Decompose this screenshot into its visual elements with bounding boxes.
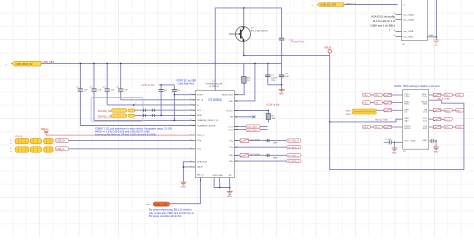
- svg-text:SBU-: SBU-: [456, 111, 461, 113]
- resistor R10: [384, 126, 392, 129]
- capacitor C6: [93, 63, 95, 120]
- svg-text:USB_VBUS_5V: USB_VBUS_5V: [16, 63, 33, 66]
- U2 left pin stubs: [396, 14, 402, 36]
- svg-text:TX1+: TX1+: [445, 95, 451, 97]
- svg-text:1uF: 1uF: [285, 76, 289, 78]
- U3 inside pin names: [404, 94, 416, 143]
- svg-text:bus_INTA: bus_INTA: [404, 30, 414, 33]
- ground (U2, salmon): [433, 40, 439, 43]
- wire CC1 row with red net label: [234, 126, 267, 128]
- net label SBU1 (yellow): [352, 109, 377, 111]
- resistor array row 2 (yellow parts): [15, 147, 53, 152]
- resistor R9: [384, 109, 392, 112]
- resistor R3 pull-up SDA: [173, 85, 175, 95]
- svg-text:R? 4.7K: R? 4.7K: [15, 136, 23, 138]
- resistor R2 pull-up SCL: [160, 85, 162, 116]
- resistor R7: [384, 94, 392, 97]
- ground (U1 bottom): [227, 192, 233, 195]
- wire SPA_ECE / LADR tie: [183, 162, 195, 167]
- ground (U3 left): [392, 148, 398, 151]
- resistor R8: [384, 101, 392, 104]
- svg-text:+3.3V or Vcc: +3.3V or Vcc: [266, 104, 281, 107]
- svg-text:TX2+: TX2+: [445, 127, 451, 129]
- U1 bottom pin labels: [213, 175, 233, 177]
- svg-text:TX1+: TX1+: [375, 95, 381, 97]
- network left row 1: [362, 93, 402, 97]
- wire row 1 to U1: [69, 139, 196, 141]
- svg-text:TX1-: TX1-: [375, 103, 380, 105]
- network left row 2: [362, 101, 402, 105]
- capacitor C14 (U3 right decoupling): [431, 139, 433, 143]
- capacitor C7: [106, 63, 108, 105]
- wire DB row: [234, 116, 255, 118]
- svg-text:RXD2-: RXD2-: [404, 128, 411, 130]
- net label row 2 (red): [55, 147, 68, 151]
- resistor R1 (Q1 emitter): [242, 77, 246, 84]
- wire SCL row to U1: [135, 109, 196, 111]
- net label box: [362, 93, 370, 97]
- svg-text:BJT-P (A) 2N3906: BJT-P (A) 2N3906: [251, 29, 269, 32]
- svg-text:Cited Note Pins: Cited Note Pins: [178, 82, 195, 85]
- svg-text:GP: GP: [228, 175, 232, 177]
- junction on rail: [160, 84, 162, 86]
- svg-text:GND: GND: [422, 140, 427, 142]
- wire R3 continues to CHARGE row: [173, 95, 175, 121]
- net label SBU2 (yellow): [352, 112, 377, 114]
- junctions on wire W: [80, 63, 82, 65]
- series element on SDA row: [144, 114, 155, 117]
- svg-text:1A 1.10 calls for 1 of: 1A 1.10 calls for 1 of: [372, 20, 395, 23]
- wire VDD to wire W: [234, 63, 255, 101]
- svg-text:2x: 2x: [10, 142, 12, 144]
- svg-text:1uF: 1uF: [97, 90, 101, 92]
- wire rail corner down to PORT pin: [174, 94, 195, 96]
- svg-text:GND: GND: [213, 175, 218, 177]
- connector net texts row 2: [10, 148, 12, 153]
- wire C8 drop to INT pin row: [121, 99, 196, 101]
- svg-text:TXD+: TXD+: [363, 95, 369, 97]
- svg-text:TXD-: TXD-: [422, 96, 427, 98]
- svg-text:USB_C_EN: USB_C_EN: [155, 203, 168, 206]
- svg-text:+3.3V or Vcc: +3.3V or Vcc: [141, 84, 156, 87]
- resistor R14: [433, 126, 441, 129]
- resistor R6: [240, 154, 249, 157]
- svg-text:NOTE: TXD0 naming is relative: NOTE: TXD0 naming is relative to the hos…: [394, 85, 439, 88]
- op IC U2 body (top right, clipped): [402, 0, 428, 41]
- junction Q1 top on top rail: [243, 7, 245, 9]
- svg-text:Probe Point: Probe Point: [291, 40, 304, 43]
- wire +3.3V rail: [159, 84, 174, 86]
- U1 bottom pin stubs: [200, 178, 229, 182]
- capacitor C9: [267, 63, 269, 84]
- svg-text:RV layout controller will do t: RV layout controller will do this.: [149, 215, 183, 218]
- svg-text:VCC: VCC: [404, 141, 409, 143]
- capacitor C10: [281, 63, 283, 84]
- junction wire V at C4 branch: [281, 55, 283, 57]
- U1 left pin labels: [197, 95, 218, 177]
- svg-text:TXD-: TXD-: [404, 96, 409, 98]
- svg-text:USB_D+: USB_D+: [56, 141, 66, 143]
- net label top (yellow flag): [317, 3, 344, 7]
- svg-text:CHARGE_INJECT_B: CHARGE_INJECT_B: [197, 119, 218, 122]
- svg-text:25V: 25V: [271, 80, 275, 82]
- TP row A: resistor + cap + label: [234, 140, 286, 142]
- junction VDD vertical on wire W: [214, 63, 216, 65]
- wire VCCIO row to pull area: [234, 110, 268, 112]
- svg-text:text: text: [146, 203, 150, 206]
- svg-text:1uF: 1uF: [124, 90, 128, 92]
- wire SDA row to U1: [135, 114, 196, 116]
- svg-text:VDD: VDD: [228, 101, 233, 103]
- wire top rail from U1 VDD up and over to C4 branch: [215, 8, 281, 91]
- junction wire V at Q1: [243, 55, 245, 57]
- svg-text:TXD2: TXD2: [456, 127, 462, 129]
- svg-text:GND: GND: [411, 141, 416, 143]
- network right row 3: [429, 109, 464, 113]
- svg-text:VBUS: VBUS: [324, 45, 332, 49]
- svg-text:SPA_ECE: SPA_ECE: [197, 161, 207, 164]
- svg-text:CC_2: CC_2: [445, 119, 451, 121]
- note text VGA slot profile: [371, 16, 396, 33]
- svg-text:external pullup listed as 1/4: external pullup listed as 1/4 watt 1/16S…: [95, 134, 157, 137]
- svg-text:0.1uF: 0.1uF: [386, 139, 392, 141]
- svg-text:USB_D-: USB_D-: [56, 149, 65, 151]
- svg-text:USB_I2C_3V3: USB_I2C_3V3: [321, 4, 337, 7]
- svg-text:CC2: CC2: [423, 112, 428, 114]
- svg-text:TXD2: TXD2: [363, 127, 369, 129]
- svg-text:bus_SDA0: bus_SDA0: [404, 18, 415, 21]
- op IC U3 network body: [403, 90, 429, 150]
- svg-text:CC: CC: [404, 112, 408, 114]
- svg-text:LADR: LADR: [197, 166, 203, 169]
- wire W (VBUS_SENSE horizontal rail): [11, 62, 282, 64]
- net label TP_TXD (row A): [287, 139, 301, 142]
- svg-text:DNP: DNP: [273, 157, 278, 159]
- net label EN_LO (orange highlighted): [153, 202, 169, 206]
- resistor R12: [433, 109, 441, 112]
- ground (U3 right): [433, 147, 439, 150]
- svg-text:k: k: [136, 103, 137, 105]
- svg-text:TXD+: TXD+: [456, 95, 462, 97]
- net label box: [374, 93, 382, 97]
- U2 right GND pin: [427, 36, 433, 38]
- svg-text:10K: 10K: [272, 118, 276, 120]
- wire row 2 to U1: [69, 148, 196, 150]
- wire C7 drop to pin B row: [107, 104, 195, 106]
- U3 bottom left VCC pin wire: [395, 141, 403, 143]
- svg-text:1uF: 1uF: [84, 90, 88, 92]
- wire C4 bottom to wire V and W: [281, 40, 283, 63]
- wire EN_LO down and left: [170, 178, 201, 204]
- network right row 2 (to VBUS route): [429, 99, 451, 101]
- svg-text:SBU1: SBU1: [346, 110, 352, 112]
- svg-text:GND: GND: [433, 151, 438, 153]
- wire bottom GND tie: [214, 182, 230, 188]
- svg-text:TP_TXD_3: TP_TXD_3: [288, 141, 300, 143]
- network left row 3 with yellow labels: [346, 109, 403, 116]
- svg-text:INT_B: INT_B: [197, 100, 204, 102]
- svg-text:SBU2: SBU2: [346, 114, 352, 116]
- network right row 1: [429, 93, 464, 97]
- svg-text:GND: GND: [218, 175, 223, 177]
- transistor Q1: [229, 8, 251, 56]
- svg-text:DB: DB: [230, 117, 234, 119]
- connector net texts row 1: [10, 140, 12, 145]
- U1 right pin labels: [221, 95, 233, 163]
- svg-text:1K 1/16W: 1K 1/16W: [250, 154, 261, 156]
- ground (ADDR pins): [180, 182, 186, 185]
- svg-text:TX2+: TX2+: [375, 127, 381, 129]
- svg-text:USB_VB.3: USB_VB.3: [43, 61, 56, 64]
- capacitor C12 (series): [267, 154, 269, 157]
- svg-text:EN_LO: EN_LO: [197, 174, 204, 176]
- wire top label to U2 in pin: [344, 4, 398, 6]
- resistor array row 1 (yellow parts): [15, 138, 53, 143]
- svg-text:GBL/4.2 USB: GBL/4.2 USB: [437, 99, 450, 101]
- svg-text:bus_SDA1: bus_SDA1: [404, 13, 415, 16]
- resistor R4 below VCCIO row: [267, 111, 269, 114]
- svg-text:CC2: CC2: [229, 129, 234, 131]
- svg-text:GND: GND: [392, 152, 397, 154]
- svg-text:GBL/4.2 USB: GBL/4.2 USB: [375, 120, 388, 122]
- svg-text:TXD-: TXD-: [363, 103, 368, 105]
- svg-text:USB-I and 1 of USB-1: USB-I and 1 of USB-1: [371, 25, 396, 28]
- TP row B wire + label: [234, 146, 286, 148]
- ground GND (caps): [279, 89, 285, 92]
- svg-text:SDA: SDA: [197, 114, 202, 117]
- wire stub to ground: [281, 85, 283, 89]
- network right row 4: [429, 117, 453, 121]
- svg-text:VBUS_DET: VBUS_DET: [221, 95, 233, 97]
- net label TP row C: [287, 154, 301, 157]
- resistor R11: [433, 94, 441, 97]
- svg-text:CC1: CC1: [229, 127, 234, 129]
- svg-text:TP_RXD_1: TP_RXD_1: [288, 161, 300, 163]
- wire C6 drop to CHARGE row: [94, 119, 196, 121]
- group outline around I2C labels: [91, 98, 143, 122]
- wire route to network row 4: [330, 119, 403, 122]
- svg-text:TP_TXD_1: TP_TXD_1: [288, 155, 300, 157]
- svg-text:STUSB4: STUSB4: [208, 98, 221, 102]
- series element on SCL row: [144, 109, 155, 112]
- svg-text:1uF: 1uF: [111, 90, 115, 92]
- U2 pin labels: [404, 4, 415, 38]
- svg-text:RXD-: RXD-: [404, 104, 410, 106]
- svg-text:VGA-E/1.0 slot profile: VGA-E/1.0 slot profile: [371, 16, 396, 19]
- wire CC2 row with red net label: [234, 128, 267, 130]
- svg-text:CC2_3V3: CC2_3V3: [247, 130, 257, 132]
- network right row 5: [429, 125, 464, 129]
- svg-text:bus_INTb: bus_INTb: [404, 36, 414, 38]
- svg-text:CURRENT_MODE: CURRENT_MODE: [197, 125, 216, 127]
- net label GBL_VBUS flag (yellow): [12, 61, 41, 66]
- resistor R13: [433, 118, 441, 121]
- junction VBUS route to RXD row: [329, 121, 331, 123]
- svg-text:SBU1: SBU1: [445, 111, 451, 113]
- U1 left pin stubs: [192, 95, 196, 167]
- svg-text:1K 1/16W: 1K 1/16W: [250, 139, 261, 141]
- svg-text:TXD_C: TXD_C: [197, 135, 205, 137]
- svg-text:(1.08E-0): (1.08E-0): [209, 86, 218, 88]
- wire from sheet top to U2 gnd pin: [435, 0, 437, 37]
- capacitor C4 (on vertical from top rail): [279, 38, 284, 40]
- svg-text:GND: GND: [227, 196, 232, 198]
- svg-text:VCCIO: VCCIO: [226, 110, 233, 112]
- svg-text:PORT: PORT: [197, 95, 204, 97]
- capacitor C13 (U3 left decoupling): [384, 141, 389, 143]
- net label row 1 (red): [55, 138, 68, 142]
- network left row 5: [362, 125, 402, 129]
- U1 right pin stubs: [234, 95, 238, 161]
- junction caps C9 C10 on wire W: [267, 63, 269, 65]
- TP row D wire + label: [234, 160, 286, 162]
- svg-text:GND: GND: [279, 94, 284, 96]
- wire C5 drop to CURRENT row: [80, 125, 195, 127]
- wire joining cap bottoms: [268, 84, 282, 86]
- svg-text:GND: GND: [181, 187, 186, 189]
- svg-text:TP_RXD_3: TP_RXD_3: [288, 147, 300, 149]
- TP row C: resistor + cap + label: [234, 154, 286, 156]
- wire VBUS_DET to Q1 emitter resistor: [234, 83, 244, 95]
- capacitor C11 (series): [267, 139, 269, 142]
- svg-text:CC4: CC4: [423, 120, 428, 122]
- U3 bottom right GND pin wire: [429, 140, 431, 142]
- wire to ground: [394, 142, 396, 147]
- capacitor C5: [79, 63, 81, 125]
- red net wire GBL to U1: [46, 134, 196, 136]
- wire V (VBUS rail from Q1 emitter to right): [244, 54, 330, 56]
- wire VBUS route around network: [330, 55, 464, 169]
- capacitor C8: [120, 63, 122, 99]
- svg-text:DNP: DNP: [273, 143, 278, 145]
- resistor R5: [240, 139, 249, 142]
- svg-text:GND: GND: [433, 45, 438, 47]
- pin number marks U1 left: [190, 94, 192, 167]
- svg-text:2x: 2x: [10, 151, 12, 153]
- op IC U1 body: [196, 91, 235, 178]
